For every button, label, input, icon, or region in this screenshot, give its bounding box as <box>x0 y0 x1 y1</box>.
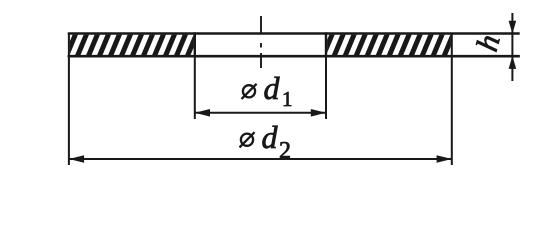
svg-text:d: d <box>262 119 279 155</box>
svg-text:2: 2 <box>279 138 291 164</box>
svg-text:1: 1 <box>282 87 293 111</box>
svg-text:d: d <box>264 70 281 106</box>
